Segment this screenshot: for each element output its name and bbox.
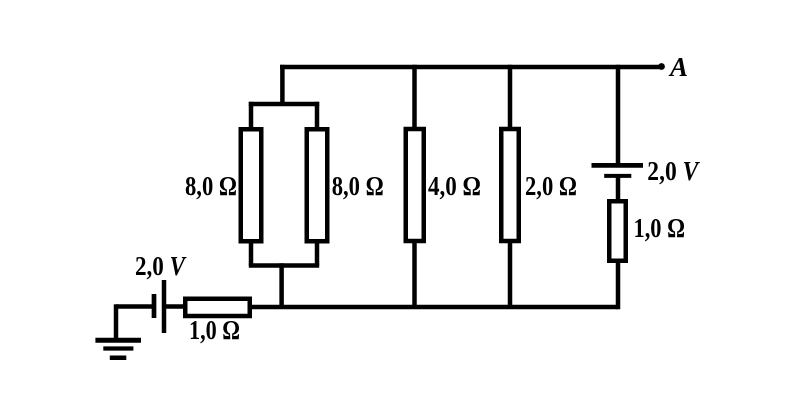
svg-text:4,0 Ω: 4,0 Ω xyxy=(428,171,481,201)
svg-text:2,0 Ω: 2,0 Ω xyxy=(525,171,577,201)
svg-text:2,0 V: 2,0 V xyxy=(647,156,700,186)
svg-text:1,0 Ω: 1,0 Ω xyxy=(634,213,686,243)
svg-text:8,0 Ω: 8,0 Ω xyxy=(185,171,237,201)
svg-text:8,0 Ω: 8,0 Ω xyxy=(332,171,384,201)
svg-text:1,0 Ω: 1,0 Ω xyxy=(189,315,240,345)
svg-text:2,0 V: 2,0 V xyxy=(135,251,187,281)
svg-text:A: A xyxy=(668,52,688,82)
